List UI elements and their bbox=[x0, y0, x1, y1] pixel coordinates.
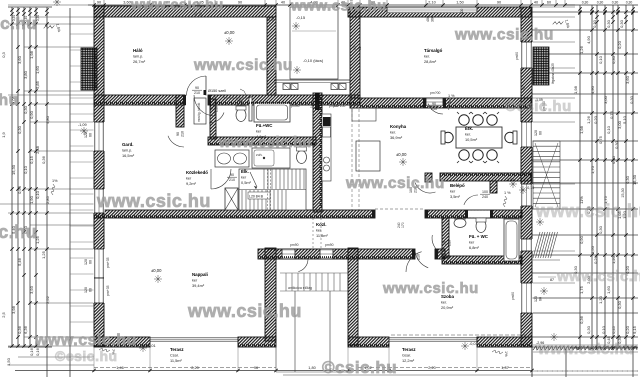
svg-text:0,30: 0,30 bbox=[17, 125, 22, 134]
svg-text:ker: ker bbox=[450, 190, 456, 194]
svg-text:0,30: 0,30 bbox=[612, 1, 619, 5]
svg-text:60: 60 bbox=[539, 131, 543, 135]
svg-text:90: 90 bbox=[176, 132, 180, 136]
svg-text:0,75: 0,75 bbox=[598, 135, 603, 144]
svg-text:-1,09: -1,09 bbox=[78, 123, 87, 127]
svg-text:1,37: 1,37 bbox=[501, 366, 508, 370]
svg-text:90: 90 bbox=[97, 1, 101, 5]
svg-text:1,26: 1,26 bbox=[579, 45, 584, 54]
svg-text:1,98: 1,98 bbox=[579, 125, 584, 134]
svg-text:400: 400 bbox=[426, 16, 430, 22]
svg-text:39,4m²: 39,4m² bbox=[192, 283, 205, 288]
svg-text:ker: ker bbox=[192, 279, 198, 283]
svg-text:15,30: 15,30 bbox=[632, 174, 637, 185]
svg-text:120: 120 bbox=[534, 296, 538, 302]
svg-text:0,75: 0,75 bbox=[609, 110, 614, 119]
svg-text:96: 96 bbox=[254, 366, 258, 370]
svg-text:Belépő: Belépő bbox=[450, 183, 465, 188]
svg-text:0,5m²: 0,5m² bbox=[241, 180, 252, 185]
svg-text:pm90: pm90 bbox=[325, 243, 334, 247]
svg-text:1,75: 1,75 bbox=[579, 285, 584, 294]
svg-text:1,25: 1,25 bbox=[41, 250, 46, 259]
svg-text:3,80: 3,80 bbox=[23, 70, 28, 79]
svg-text:5,85: 5,85 bbox=[35, 80, 40, 89]
svg-text:©csic.hu: ©csic.hu bbox=[0, 14, 37, 33]
svg-text:60: 60 bbox=[89, 288, 93, 292]
svg-text:2,52: 2,52 bbox=[45, 295, 50, 304]
svg-text:36,9m²: 36,9m² bbox=[390, 135, 403, 140]
svg-text:0,36: 0,36 bbox=[41, 155, 46, 164]
svg-text:60: 60 bbox=[89, 133, 93, 137]
svg-text:90: 90 bbox=[353, 46, 357, 50]
svg-text:www.csic.hu: www.csic.hu bbox=[187, 301, 302, 321]
svg-text:1,26: 1,26 bbox=[586, 115, 591, 124]
svg-text:pm90: pm90 bbox=[290, 243, 299, 247]
svg-text:antikolva előlag: antikolva előlag bbox=[288, 286, 312, 290]
svg-text:1,9: 1,9 bbox=[1, 131, 6, 137]
svg-text:1,98: 1,98 bbox=[29, 50, 34, 59]
svg-text:120: 120 bbox=[84, 259, 88, 265]
svg-text:1,80: 1,80 bbox=[308, 366, 315, 370]
svg-text:pm+35: pm+35 bbox=[106, 257, 110, 268]
svg-text:90: 90 bbox=[497, 1, 501, 5]
svg-text:90: 90 bbox=[230, 173, 234, 177]
svg-text:0,30: 0,30 bbox=[619, 19, 624, 28]
svg-text:3,60: 3,60 bbox=[123, 1, 130, 5]
svg-text:3,00: 3,00 bbox=[617, 120, 622, 129]
svg-text:lam.p.: lam.p. bbox=[122, 149, 132, 153]
svg-text:0,10: 0,10 bbox=[23, 165, 28, 174]
svg-text:15,30: 15,30 bbox=[11, 164, 16, 175]
svg-text:90: 90 bbox=[195, 86, 199, 90]
svg-text:9,2m²: 9,2m² bbox=[186, 181, 197, 186]
svg-text:-0,15: -0,15 bbox=[296, 15, 306, 20]
svg-text:Ø150 szell: Ø150 szell bbox=[208, 89, 226, 93]
svg-text:±0,00: ±0,00 bbox=[224, 30, 235, 35]
svg-text:0,20: 0,20 bbox=[617, 40, 622, 49]
svg-text:11,8m²: 11,8m² bbox=[316, 233, 329, 238]
svg-text:0,30: 0,30 bbox=[582, 1, 589, 5]
svg-text:90: 90 bbox=[271, 17, 275, 21]
svg-text:0,60: 0,60 bbox=[611, 155, 616, 164]
svg-text:120: 120 bbox=[84, 132, 88, 138]
svg-text:0,30: 0,30 bbox=[629, 95, 634, 104]
svg-text:www.csic.hu: www.csic.hu bbox=[454, 27, 554, 44]
svg-text:www.csic.hu: www.csic.hu bbox=[193, 57, 293, 74]
svg-text:40: 40 bbox=[281, 1, 285, 5]
svg-text:www.csic.hu: www.csic.hu bbox=[290, 0, 387, 15]
svg-text:1,60: 1,60 bbox=[606, 285, 611, 294]
svg-text:360: 360 bbox=[431, 16, 435, 22]
svg-text:3,93: 3,93 bbox=[29, 285, 34, 294]
svg-text:0,3: 0,3 bbox=[1, 51, 6, 57]
svg-text:12,2m²: 12,2m² bbox=[402, 358, 415, 363]
svg-text:Gard.: Gard. bbox=[122, 142, 133, 147]
svg-text:ker: ker bbox=[241, 176, 247, 180]
svg-text:90: 90 bbox=[432, 102, 436, 106]
svg-text:4,80: 4,80 bbox=[45, 115, 50, 124]
svg-text:6,36: 6,36 bbox=[23, 325, 28, 334]
svg-text:ker: ker bbox=[256, 130, 262, 134]
svg-text:4,90: 4,90 bbox=[590, 85, 595, 94]
svg-text:0,30: 0,30 bbox=[625, 175, 630, 184]
svg-text:120: 120 bbox=[84, 287, 88, 293]
svg-text:75: 75 bbox=[210, 107, 214, 111]
svg-text:0,30: 0,30 bbox=[626, 1, 633, 5]
svg-text:0,36: 0,36 bbox=[579, 315, 584, 324]
svg-text:www.csic.hu: www.csic.hu bbox=[345, 175, 445, 192]
svg-text:1,46: 1,46 bbox=[116, 366, 123, 370]
svg-text:0,30: 0,30 bbox=[611, 55, 616, 64]
svg-text:1,90: 1,90 bbox=[29, 195, 34, 204]
svg-text:1 %: 1 % bbox=[448, 94, 455, 98]
svg-text:0,10: 0,10 bbox=[35, 190, 40, 199]
svg-text:14: 14 bbox=[310, 104, 314, 108]
svg-text:ker.: ker. bbox=[465, 133, 471, 137]
svg-text:0,90: 0,90 bbox=[579, 235, 584, 244]
svg-text:210: 210 bbox=[194, 91, 200, 95]
svg-text:2,48: 2,48 bbox=[35, 145, 40, 154]
svg-text:mosóg. tároló: mosóg. tároló bbox=[197, 102, 201, 122]
svg-text:pmf00: pmf00 bbox=[329, 104, 339, 108]
svg-text:15,30: 15,30 bbox=[621, 188, 625, 198]
svg-text:1,50: 1,50 bbox=[6, 357, 11, 366]
svg-text:0,30: 0,30 bbox=[592, 19, 597, 28]
svg-text:0,10: 0,10 bbox=[601, 325, 606, 334]
svg-text:ker: ker bbox=[469, 241, 475, 245]
svg-text:3,5m²: 3,5m² bbox=[450, 194, 461, 199]
svg-text:0,15: 0,15 bbox=[29, 155, 34, 164]
svg-text:ker.: ker. bbox=[424, 55, 430, 59]
svg-text:9,15: 9,15 bbox=[632, 325, 637, 334]
svg-text:1 %: 1 % bbox=[504, 191, 511, 195]
svg-text:pm+35: pm+35 bbox=[106, 285, 110, 296]
svg-text:-0,10 (tács): -0,10 (tács) bbox=[303, 58, 324, 63]
svg-text:90: 90 bbox=[522, 86, 526, 90]
svg-text:75: 75 bbox=[443, 241, 447, 245]
svg-text:Háló: Háló bbox=[133, 48, 143, 53]
svg-text:www.csic.hu: www.csic.hu bbox=[382, 280, 479, 297]
svg-text:lam.p.: lam.p. bbox=[133, 55, 143, 59]
svg-text:210: 210 bbox=[181, 131, 185, 137]
svg-text:pm?00: pm?00 bbox=[430, 91, 440, 95]
svg-text:2,85: 2,85 bbox=[45, 195, 50, 204]
svg-text:60: 60 bbox=[89, 260, 93, 264]
svg-text:www.csic.hu: www.csic.hu bbox=[535, 201, 640, 221]
svg-text:www.csic.hu: www.csic.hu bbox=[556, 268, 640, 285]
svg-text:0,30: 0,30 bbox=[23, 105, 28, 114]
svg-text:±0,00: ±0,00 bbox=[396, 152, 407, 157]
svg-text:Közlekedő: Közlekedő bbox=[186, 170, 208, 175]
svg-text:±0,00: ±0,00 bbox=[151, 268, 162, 273]
svg-text:2,5: 2,5 bbox=[1, 311, 6, 317]
svg-text:1,20: 1,20 bbox=[598, 295, 603, 304]
svg-text:210: 210 bbox=[448, 240, 452, 246]
svg-text:pm90: pm90 bbox=[291, 104, 300, 108]
svg-text:Fü.+WC: Fü.+WC bbox=[256, 123, 273, 128]
svg-text:0,30: 0,30 bbox=[617, 300, 622, 309]
svg-text:©csic.hu: ©csic.hu bbox=[322, 358, 397, 377]
svg-text:0,30: 0,30 bbox=[597, 1, 604, 5]
svg-text:ker: ker bbox=[186, 177, 192, 181]
svg-text:0,30: 0,30 bbox=[606, 19, 611, 28]
svg-text:0,20: 0,20 bbox=[593, 115, 598, 124]
svg-text:170: 170 bbox=[401, 222, 405, 228]
svg-text:1,20: 1,20 bbox=[611, 255, 616, 264]
svg-text:3,00: 3,00 bbox=[603, 95, 608, 104]
svg-text:0,30: 0,30 bbox=[586, 325, 591, 334]
svg-text:zuh.: zuh. bbox=[256, 153, 262, 157]
svg-text:www.csic.hu: www.csic.hu bbox=[34, 332, 137, 349]
svg-text:26,7m²: 26,7m² bbox=[133, 59, 146, 64]
svg-text:0,30: 0,30 bbox=[614, 140, 619, 149]
svg-text:Étk.: Étk. bbox=[465, 126, 473, 131]
svg-text:Terasz: Terasz bbox=[402, 347, 416, 352]
svg-text:1,50: 1,50 bbox=[590, 245, 595, 254]
svg-text:3,60: 3,60 bbox=[625, 75, 630, 84]
svg-text:-0,01: -0,01 bbox=[469, 342, 478, 346]
svg-text:ker.: ker. bbox=[441, 301, 447, 305]
svg-text:1,50: 1,50 bbox=[456, 1, 463, 5]
svg-text:0,26: 0,26 bbox=[593, 255, 598, 264]
svg-text:1%: 1% bbox=[52, 179, 58, 183]
svg-text:19: 19 bbox=[315, 104, 319, 108]
svg-text:0,20: 0,20 bbox=[625, 325, 630, 334]
svg-text:87: 87 bbox=[550, 278, 554, 282]
svg-text:90: 90 bbox=[238, 1, 242, 5]
svg-text:210: 210 bbox=[229, 178, 235, 182]
svg-text:240: 240 bbox=[397, 222, 401, 228]
svg-text:0,90: 0,90 bbox=[17, 185, 22, 194]
svg-text:40: 40 bbox=[534, 1, 538, 5]
svg-text:2,20: 2,20 bbox=[191, 366, 198, 370]
svg-text:©csic.hu: ©csic.hu bbox=[0, 222, 37, 242]
svg-text:0,45: 0,45 bbox=[611, 325, 616, 334]
svg-text:11,5m²: 11,5m² bbox=[170, 358, 183, 363]
svg-text:2,20: 2,20 bbox=[428, 366, 435, 370]
svg-text:www.csic.hu: www.csic.hu bbox=[130, 0, 224, 14]
svg-text:-0,10: -0,10 bbox=[526, 186, 534, 190]
svg-text:6,8m²: 6,8m² bbox=[469, 245, 480, 250]
svg-text:10,5m²: 10,5m² bbox=[465, 137, 478, 142]
svg-text:Gsar.: Gsar. bbox=[402, 354, 411, 358]
svg-text:pm90: pm90 bbox=[515, 52, 519, 60]
svg-text:4,90: 4,90 bbox=[586, 35, 591, 44]
svg-text:60: 60 bbox=[539, 297, 543, 301]
svg-text:légakna 40x25: légakna 40x25 bbox=[551, 63, 555, 84]
svg-text:3,60: 3,60 bbox=[17, 55, 22, 64]
svg-text:0,90: 0,90 bbox=[29, 110, 34, 119]
svg-text:0,10: 0,10 bbox=[598, 55, 603, 64]
svg-text:ker.: ker. bbox=[390, 131, 396, 135]
svg-text:5,10: 5,10 bbox=[622, 115, 627, 124]
svg-text:©csic.hu: ©csic.hu bbox=[55, 348, 118, 364]
svg-text:0,16: 0,16 bbox=[29, 347, 34, 356]
svg-text:0,10: 0,10 bbox=[606, 125, 611, 134]
svg-text:210: 210 bbox=[431, 107, 437, 111]
svg-text:-0,01: -0,01 bbox=[506, 178, 514, 182]
svg-text:100: 100 bbox=[482, 190, 488, 194]
svg-text:3,98: 3,98 bbox=[11, 305, 16, 314]
svg-text:©csic.hu: ©csic.hu bbox=[505, 98, 572, 115]
svg-text:0,30: 0,30 bbox=[598, 225, 603, 234]
svg-text:28,8m²: 28,8m² bbox=[424, 59, 437, 64]
svg-text:1,60: 1,60 bbox=[35, 65, 40, 74]
svg-text:1%: 1% bbox=[504, 351, 508, 357]
svg-text:2,10: 2,10 bbox=[428, 1, 435, 5]
svg-text:www.csic.hu: www.csic.hu bbox=[537, 341, 634, 358]
svg-text:Csar.: Csar. bbox=[170, 354, 179, 358]
svg-text:Nappali: Nappali bbox=[192, 272, 208, 277]
svg-text:20,9m²: 20,9m² bbox=[441, 305, 454, 310]
svg-text:Terasz: Terasz bbox=[170, 347, 184, 352]
svg-text:L20 84 B: L20 84 B bbox=[249, 195, 264, 199]
svg-text:16,5m²: 16,5m² bbox=[122, 153, 135, 158]
svg-text:210: 210 bbox=[215, 106, 219, 112]
svg-text:5,46: 5,46 bbox=[17, 257, 22, 266]
svg-text:60: 60 bbox=[358, 46, 362, 50]
svg-text:0,36: 0,36 bbox=[17, 325, 22, 334]
svg-text:400: 400 bbox=[460, 8, 464, 14]
svg-text:60: 60 bbox=[547, 1, 551, 5]
svg-text:©csic.hu: ©csic.hu bbox=[0, 92, 19, 109]
svg-text:www.csic.hu: www.csic.hu bbox=[96, 191, 211, 211]
svg-text:1,98: 1,98 bbox=[573, 85, 578, 94]
svg-text:1,70: 1,70 bbox=[590, 165, 595, 174]
svg-text:Fü. + WC: Fü. + WC bbox=[469, 234, 489, 239]
svg-text:Élk.: Élk. bbox=[241, 169, 249, 174]
svg-text:120: 120 bbox=[534, 130, 538, 136]
svg-text:Konyha: Konyha bbox=[390, 124, 407, 129]
svg-text:Társalgó: Társalgó bbox=[424, 48, 443, 53]
svg-text:pm90: pm90 bbox=[511, 292, 515, 300]
svg-text:www.csic.hu: www.csic.hu bbox=[218, 135, 312, 151]
svg-text:210: 210 bbox=[417, 254, 421, 260]
svg-text:240: 240 bbox=[482, 195, 488, 199]
